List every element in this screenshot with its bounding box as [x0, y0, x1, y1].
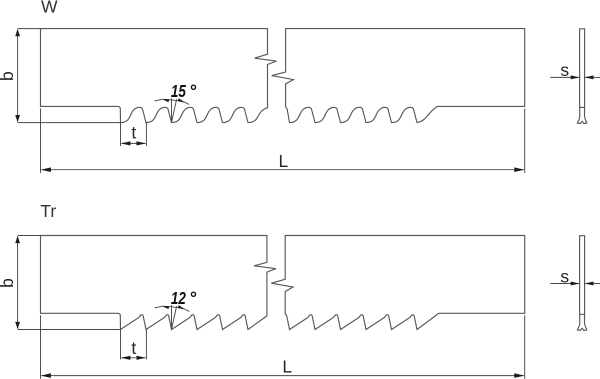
svg-text:L: L: [282, 356, 292, 376]
svg-text:s: s: [560, 60, 569, 80]
svg-text:15: 15: [171, 81, 186, 101]
svg-text:b: b: [0, 71, 17, 81]
svg-text:s: s: [560, 266, 569, 286]
svg-text:t: t: [131, 338, 136, 358]
svg-text:b: b: [0, 278, 17, 288]
svg-text:12: 12: [171, 288, 186, 308]
svg-text:W: W: [41, 0, 58, 17]
svg-text:°: °: [189, 81, 197, 101]
svg-text:L: L: [279, 151, 289, 171]
svg-text:°: °: [189, 288, 197, 308]
svg-text:Tr: Tr: [40, 201, 56, 221]
svg-text:t: t: [131, 123, 136, 143]
